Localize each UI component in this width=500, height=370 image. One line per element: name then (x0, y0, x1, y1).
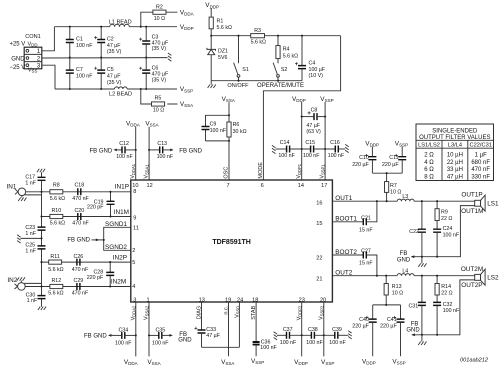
svg-text:L3/L4: L3/L4 (448, 143, 462, 149)
svg-text:C5: C5 (107, 67, 114, 73)
svg-text:100 nF: 100 nF (260, 345, 277, 351)
svg-text:330 nF: 330 nF (471, 174, 490, 180)
svg-text:1 nF: 1 nF (25, 249, 36, 255)
svg-text:4 Ω: 4 Ω (424, 160, 434, 166)
capacitor C20 (72, 208, 89, 227)
svg-text:OUT1M: OUT1M (461, 208, 483, 215)
capacitor C29 (72, 278, 89, 297)
svg-text:22 µH: 22 µH (447, 160, 463, 166)
wire VSSP2 rail (323, 302, 325, 356)
svg-text:R11: R11 (50, 254, 59, 260)
wire IN2 shield (24, 282, 41, 284)
wire VSSD rail (238, 302, 240, 347)
svg-text:FB: FB (400, 251, 408, 257)
wire IN2 signal (25, 286, 131, 288)
svg-text:OUT2P: OUT2P (461, 282, 482, 289)
svg-text:11: 11 (133, 226, 139, 232)
resistor R7 (385, 173, 402, 201)
svg-text:OUT1P: OUT1P (461, 192, 482, 199)
svg-text:SGND1: SGND1 (105, 221, 127, 228)
ground tap between C23/C25 (17, 235, 41, 243)
svg-text:100 nF: 100 nF (306, 340, 323, 346)
svg-text:R12: R12 (51, 278, 61, 284)
arrow FB GND filter2 (406, 321, 420, 336)
junction dots power grid (69, 26, 148, 90)
svg-text:TDF8591TH: TDF8591TH (212, 239, 251, 246)
svg-text:100 nF: 100 nF (443, 232, 460, 238)
capacitor C38 (306, 327, 335, 346)
resistor R2 (141, 5, 178, 27)
resistor R12 (48, 278, 63, 297)
svg-text:100 nF: 100 nF (329, 340, 346, 346)
svg-text:8: 8 (133, 189, 136, 195)
svg-text:220 µF: 220 µF (352, 162, 369, 168)
svg-text:C22/C31: C22/C31 (469, 143, 491, 149)
svg-text:C29: C29 (74, 278, 84, 284)
svg-text:100 nF: 100 nF (157, 154, 174, 160)
svg-text:1 µF: 1 µF (475, 153, 487, 159)
svg-text:100 nF: 100 nF (210, 128, 227, 134)
svg-text:2 Ω: 2 Ω (424, 153, 434, 159)
node VDDP (pin 14 rail) (292, 96, 306, 180)
wire IN1M row (42, 216, 131, 218)
capacitor C37 (274, 327, 312, 346)
svg-text:VSS: VSS (28, 68, 38, 74)
svg-text:1 nF: 1 nF (25, 181, 36, 187)
svg-text:FB GND: FB GND (90, 148, 113, 154)
svg-text:L3: L3 (402, 194, 408, 200)
svg-text:12: 12 (146, 183, 152, 189)
wire VSS bottom rail (55, 88, 177, 90)
svg-text:18: 18 (252, 297, 258, 303)
svg-text:C14: C14 (280, 140, 290, 146)
svg-text:220 pF: 220 pF (87, 205, 104, 211)
svg-text:OPERATE/MUTE: OPERATE/MUTE (257, 83, 304, 89)
svg-text:L4: L4 (402, 268, 408, 274)
svg-text:2: 2 (132, 248, 135, 254)
svg-text:C17: C17 (25, 174, 35, 180)
svg-text:470 nF: 470 nF (72, 291, 89, 297)
svg-text:5.6 kΩ: 5.6 kΩ (48, 291, 63, 297)
svg-text:470 nF: 470 nF (72, 196, 89, 202)
capacitor C26 (72, 254, 89, 273)
svg-text:100 nF: 100 nF (328, 153, 345, 159)
svg-text:C22: C22 (409, 229, 419, 235)
svg-text:001aab212: 001aab212 (460, 358, 489, 364)
node VSSP (pin 17 rail) (320, 96, 333, 180)
switch S2 (273, 63, 287, 81)
capacitor C11 (382, 154, 406, 173)
ground filter1 (418, 257, 426, 267)
capacitor C4 (295, 36, 326, 81)
svg-text:14: 14 (298, 183, 304, 189)
svg-text:100 nF: 100 nF (116, 154, 133, 160)
svg-text:470 nF: 470 nF (72, 221, 89, 227)
svg-text:IN2: IN2 (7, 277, 17, 284)
svg-text:L2 BEAD: L2 BEAD (109, 92, 132, 98)
wire SGND1 (104, 227, 131, 250)
svg-text:100 nF: 100 nF (152, 341, 169, 347)
svg-text:15 nF: 15 nF (359, 228, 373, 234)
junction dots bottom (135, 334, 325, 336)
svg-text:5.6 kΩ: 5.6 kΩ (283, 53, 298, 59)
svg-text:IN2P: IN2P (113, 255, 127, 262)
switch S1 (234, 36, 249, 81)
zener diode DZ1 (207, 36, 228, 81)
wire OUT1 (332, 200, 474, 202)
wire CON1 pin3 to VSS rail (42, 65, 55, 89)
svg-text:220 µF: 220 µF (380, 324, 397, 330)
svg-text:100 nF: 100 nF (76, 74, 93, 80)
wire C10/C11 join (372, 172, 402, 174)
node VDDP (C10) (365, 140, 379, 156)
svg-text:R6: R6 (233, 122, 240, 128)
svg-text:C8: C8 (311, 107, 318, 113)
svg-text:C7: C7 (76, 67, 83, 73)
resistor R8 (50, 183, 65, 202)
svg-text:220 pF: 220 pF (87, 275, 104, 281)
capacitor C1 (66, 27, 93, 58)
svg-text:C1: C1 (76, 36, 83, 42)
svg-text:47 µF: 47 µF (306, 123, 320, 129)
node VDDA (rail to pin 10) (126, 121, 140, 180)
svg-text:10 Ω: 10 Ω (392, 291, 403, 297)
wire n.c. rail (228, 302, 230, 356)
svg-text:220 µF: 220 µF (352, 324, 369, 330)
capacitor C24 (433, 226, 460, 257)
svg-text:VDD: VDD (28, 41, 38, 47)
junction dots control (210, 35, 303, 82)
arrow FB GND (SGND) (67, 238, 103, 244)
svg-text:C41: C41 (387, 317, 397, 323)
node VSSP (C11) (395, 140, 408, 156)
svg-text:LS1/LS2: LS1/LS2 (418, 143, 440, 149)
wire IN1 signal (26, 191, 131, 193)
capacitor C31 (408, 276, 425, 342)
svg-text:C32: C32 (443, 302, 453, 308)
svg-text:CON1: CON1 (25, 34, 41, 40)
svg-text:5.6 kΩ: 5.6 kΩ (48, 267, 63, 273)
svg-text:6 Ω: 6 Ω (424, 167, 434, 173)
capacitor C23 (25, 225, 45, 237)
svg-text:20: 20 (320, 297, 326, 303)
ground filter2 (418, 342, 426, 346)
svg-text:220 µF: 220 µF (382, 162, 399, 168)
svg-text:8 Ω: 8 Ω (424, 174, 434, 180)
svg-text:C10: C10 (359, 155, 369, 161)
svg-text:MODE: MODE (258, 162, 264, 179)
capacitor C2 (94, 27, 121, 58)
speaker LS1 (461, 192, 499, 215)
svg-text:L1 BEAD: L1 BEAD (109, 19, 132, 25)
wire VDD top rail (54, 26, 177, 28)
svg-text:BOOT2: BOOT2 (335, 249, 357, 256)
svg-text:33 µH: 33 µH (447, 167, 463, 173)
junction dots OSC (228, 114, 230, 142)
svg-text:+25 V: +25 V (9, 41, 25, 47)
capacitor C15 (303, 140, 335, 159)
capacitor C40 (352, 305, 376, 356)
svg-text:470 nF: 470 nF (471, 167, 490, 173)
svg-text:VDDA1: VDDA1 (130, 163, 136, 178)
svg-text:OSC: OSC (224, 167, 230, 179)
capacitor C35 (149, 327, 192, 346)
svg-text:15: 15 (316, 221, 322, 227)
svg-text:(35 V): (35 V) (107, 80, 122, 86)
resistor R11 (48, 254, 63, 273)
svg-text:BOOT1: BOOT1 (335, 216, 357, 223)
svg-text:16: 16 (316, 201, 322, 207)
svg-text:5: 5 (132, 260, 135, 266)
inductor L1 (109, 19, 132, 26)
svg-text:S1: S1 (242, 67, 249, 73)
resistor R13 (384, 276, 403, 305)
svg-text:OUT2: OUT2 (335, 269, 352, 276)
svg-text:1 nF: 1 nF (27, 298, 38, 304)
wire IN2P row (42, 261, 131, 263)
wire VDDA2 rail (135, 302, 137, 356)
svg-text:C18: C18 (74, 183, 84, 189)
svg-text:OUTPUT FILTER VALUES: OUTPUT FILTER VALUES (419, 135, 490, 141)
wire OUT2 (332, 275, 474, 277)
svg-text:R3: R3 (254, 28, 261, 34)
wire mode routing (263, 36, 340, 180)
svg-text:FB: FB (411, 321, 419, 327)
node VSSA (OSC) (222, 96, 235, 180)
svg-text:C34: C34 (118, 327, 128, 333)
capacitor C7 (66, 58, 93, 89)
svg-text:C31: C31 (408, 304, 418, 310)
inductor L2 (109, 87, 132, 98)
svg-text:OUT1: OUT1 (335, 195, 352, 202)
capacitor C28 (87, 262, 115, 286)
wire CON1 pin2 GND rail (42, 57, 168, 59)
svg-text:(35 V): (35 V) (107, 49, 122, 55)
node VSSA (rail to pin 12) (145, 121, 158, 180)
op-amp IC TDF8591TH (131, 180, 333, 302)
svg-text:R1: R1 (217, 18, 224, 24)
wire DIAG-VSSD join (202, 346, 240, 348)
svg-text:C37: C37 (283, 327, 293, 333)
svg-text:10 Ω: 10 Ω (390, 189, 401, 195)
svg-text:100 nF: 100 nF (278, 153, 295, 159)
wire filter2 ground (412, 280, 475, 335)
svg-text:47 µF: 47 µF (107, 74, 121, 80)
svg-text:4: 4 (132, 284, 135, 290)
speaker LS2 (461, 266, 499, 289)
svg-text:(63 V): (63 V) (306, 129, 321, 135)
arrow FB GND filter1 (397, 251, 415, 263)
capacitor C16 (328, 140, 349, 159)
svg-text:R8: R8 (53, 183, 60, 189)
svg-text:VSSP1: VSSP1 (320, 164, 326, 179)
svg-text:5.6 kΩ: 5.6 kΩ (217, 25, 232, 31)
svg-text:FB GND: FB GND (84, 334, 107, 340)
svg-text:IN1P: IN1P (115, 184, 129, 191)
resistor R3 (251, 28, 266, 45)
svg-text:17: 17 (321, 183, 327, 189)
svg-text:(35 V): (35 V) (152, 46, 167, 52)
capacitor C36 (253, 302, 278, 356)
svg-text:C38: C38 (308, 327, 318, 333)
svg-text:22 Ω: 22 Ω (441, 291, 452, 297)
capacitor C9 (202, 115, 230, 141)
svg-text:C40: C40 (359, 317, 369, 323)
svg-text:GND: GND (11, 56, 25, 62)
capacitor C13 (149, 141, 203, 160)
svg-text:C39: C39 (332, 327, 342, 333)
svg-text:VSSA1: VSSA1 (144, 164, 150, 179)
svg-text:LS1: LS1 (487, 200, 499, 207)
inductor L3 (397, 194, 414, 201)
resistor R6 (227, 122, 247, 137)
svg-text:C16: C16 (330, 140, 340, 146)
capacitor C8 (302, 107, 325, 135)
capacitor C25 (25, 243, 45, 255)
svg-text:C2: C2 (107, 36, 114, 42)
svg-text:47 µF: 47 µF (206, 333, 220, 339)
connector CON1 (9, 34, 41, 73)
resistor R9 (435, 201, 452, 229)
svg-text:R2: R2 (156, 5, 163, 11)
ground control (208, 81, 216, 88)
svg-text:5.6 kΩ: 5.6 kΩ (251, 39, 266, 45)
capacitor C5 (94, 58, 121, 89)
resistor R4 (276, 36, 298, 64)
svg-text:15 nF: 15 nF (359, 261, 373, 267)
junction dots output (376, 172, 438, 336)
resistor R1 (209, 9, 232, 36)
svg-text:7: 7 (226, 183, 229, 189)
svg-text:C21: C21 (361, 215, 371, 221)
ground end of GND rail (168, 53, 172, 61)
svg-text:C26: C26 (74, 254, 84, 260)
capacitor C17 (25, 169, 45, 192)
svg-text:10 Ω: 10 Ω (154, 16, 165, 22)
svg-text:GND: GND (397, 257, 411, 263)
svg-text:−25 V: −25 V (9, 65, 25, 71)
svg-text:C11: C11 (389, 155, 398, 161)
svg-text:IN2M: IN2M (111, 278, 126, 285)
capacitor C34 (84, 327, 136, 346)
svg-text:5V6: 5V6 (218, 55, 227, 61)
svg-text:100 nF: 100 nF (76, 43, 93, 49)
svg-text:R14: R14 (441, 284, 451, 290)
svg-text:FB GND: FB GND (179, 148, 202, 154)
svg-text:6: 6 (261, 183, 264, 189)
capacitor C30 (26, 293, 47, 310)
wire input ladder vertical (41, 192, 43, 307)
capacitor C3 (139, 27, 169, 58)
connector IN1 (7, 184, 27, 202)
svg-text:C13: C13 (157, 141, 167, 147)
svg-text:R7: R7 (390, 183, 397, 189)
svg-text:22 Ω: 22 Ω (441, 216, 452, 222)
svg-text:GND: GND (178, 337, 192, 343)
svg-text:LS2: LS2 (487, 274, 499, 281)
svg-text:(35 V): (35 V) (152, 77, 167, 83)
svg-text:ON/OFF: ON/OFF (227, 83, 249, 89)
capacitor C6 (139, 58, 169, 89)
wire control top rail (211, 35, 340, 37)
capacitor C22 (409, 201, 426, 257)
wire VDDP2 rail (301, 302, 303, 356)
wire IN1 shield (25, 194, 42, 196)
svg-text:C20: C20 (74, 208, 84, 214)
svg-text:24: 24 (237, 297, 243, 303)
svg-text:C15: C15 (305, 140, 315, 146)
svg-text:(10 V): (10 V) (309, 73, 324, 79)
wire filter1 ground (411, 206, 474, 257)
svg-text:C12: C12 (119, 141, 129, 147)
svg-text:5.6 kΩ: 5.6 kΩ (50, 196, 65, 202)
capacitor C33 (194, 302, 220, 347)
svg-text:S2: S2 (281, 67, 288, 73)
svg-text:100 nF: 100 nF (280, 340, 297, 346)
svg-text:R4: R4 (283, 46, 290, 52)
svg-text:10 Ω: 10 Ω (153, 107, 164, 113)
svg-text:C9: C9 (210, 122, 217, 128)
wire CON1 pin1 to VDD rail (42, 27, 55, 51)
svg-text:C4: C4 (309, 61, 316, 67)
svg-text:DZ1: DZ1 (218, 49, 228, 55)
svg-text:100 µF: 100 µF (309, 67, 326, 73)
svg-text:30 kΩ: 30 kΩ (233, 129, 247, 135)
svg-text:OUT2M: OUT2M (461, 266, 483, 273)
capacitor C19 (87, 192, 115, 217)
svg-text:22: 22 (316, 255, 322, 261)
junction dots decoupling (135, 116, 327, 151)
capacitor C10 (352, 154, 376, 173)
capacitor C32 (433, 302, 460, 335)
wire VSSA2 rail (148, 302, 150, 356)
svg-text:100 nF: 100 nF (115, 341, 132, 347)
connector IN2 (7, 277, 25, 290)
capacitor C14 (272, 140, 311, 159)
svg-text:IN1M: IN1M (114, 209, 129, 216)
svg-text:C24: C24 (443, 226, 453, 232)
svg-text:VDDP1: VDDP1 (296, 163, 302, 178)
svg-text:R5: R5 (155, 96, 162, 102)
resistor R10 (50, 208, 65, 227)
capacitor C41 (380, 305, 404, 356)
capacitor C39 (329, 327, 351, 346)
svg-text:SGND2: SGND2 (105, 244, 127, 251)
junction dots input (40, 191, 111, 288)
capacitor C21 (332, 201, 377, 233)
svg-text:47 µF: 47 µF (107, 43, 121, 49)
capacitor C27 (332, 249, 377, 276)
svg-text:47 µH: 47 µH (447, 174, 463, 180)
svg-text:470 nF: 470 nF (72, 267, 89, 273)
svg-text:FB GND: FB GND (67, 238, 90, 244)
table output filter values (416, 124, 494, 181)
wire control bottom rail (211, 80, 302, 82)
svg-text:1 nF: 1 nF (25, 231, 36, 237)
svg-text:SINGLE-ENDED: SINGLE-ENDED (432, 128, 478, 134)
svg-text:R10: R10 (51, 208, 61, 214)
wire C40/C41 header (373, 304, 401, 306)
svg-text:9: 9 (133, 216, 136, 222)
capacitor C18 (72, 183, 89, 202)
capacitor C12 (90, 141, 136, 160)
svg-text:100 nF: 100 nF (303, 153, 320, 159)
svg-text:R9: R9 (441, 209, 448, 215)
svg-text:10 µH: 10 µH (447, 153, 463, 159)
svg-text:C33: C33 (206, 327, 216, 333)
svg-text:C27: C27 (361, 249, 371, 255)
svg-text:5.6 kΩ: 5.6 kΩ (50, 221, 65, 227)
